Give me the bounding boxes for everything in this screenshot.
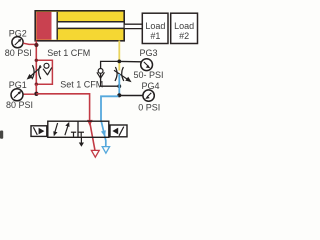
DCV left envelope arrow 2 (up) bbox=[65, 122, 70, 135]
svg-text:80 PSI: 80 PSI bbox=[6, 100, 33, 110]
node FCV2 bottom junction bbox=[117, 84, 121, 88]
FCV2 check valve seat bbox=[97, 72, 105, 78]
label Set 1 CFM (FCV1) bbox=[47, 48, 90, 58]
wire PG3 tap bbox=[119, 60, 141, 62]
svg-text:#2: #2 bbox=[179, 31, 189, 41]
piston rod inside barrel bbox=[58, 22, 124, 29]
wire FCV2 out (blue) bbox=[118, 74, 120, 95]
piston white gap bbox=[52, 12, 58, 40]
svg-text:#1: #1 bbox=[150, 31, 160, 41]
cylinder piston (red) bbox=[36, 12, 51, 40]
red flow arrow into valve bbox=[87, 120, 93, 126]
wire blue branch to valve bbox=[101, 96, 118, 121]
red flow path inside valve bbox=[90, 124, 95, 151]
flow control valve FCV2 bypass loop bbox=[101, 61, 120, 86]
edge smudge bottom-left bbox=[0, 131, 3, 139]
label 0 PSI bbox=[138, 103, 160, 113]
svg-text:Load: Load bbox=[174, 21, 194, 31]
wire FCV1 to main junction bbox=[35, 84, 37, 94]
gauge PG3 bbox=[141, 59, 153, 71]
load block #2 bbox=[171, 13, 198, 43]
label PG4 bbox=[142, 81, 160, 91]
svg-text:Load: Load bbox=[145, 21, 165, 31]
solenoid pilot right bbox=[110, 125, 127, 137]
blue flow path inside valve bbox=[101, 121, 106, 146]
FCV1 check valve seat bbox=[43, 68, 52, 76]
flow control valve FCV1 bypass loop bbox=[35, 59, 53, 86]
gauge PG2 bbox=[12, 37, 23, 48]
red exhaust triangle bbox=[91, 150, 99, 157]
cylinder C1 barrel bbox=[35, 11, 124, 41]
label PG3 bbox=[140, 48, 158, 58]
FCV2 adjust arrow bbox=[114, 70, 132, 82]
node PG1 junction bbox=[34, 92, 38, 96]
load block #1 bbox=[142, 13, 168, 43]
svg-text:0 PSI: 0 PSI bbox=[138, 103, 160, 113]
svg-text:Set 1 CFM: Set 1 CFM bbox=[60, 79, 103, 89]
gauge PG4 bbox=[143, 90, 154, 101]
FCV1 restrictor arcs bbox=[32, 65, 41, 79]
solenoid pilot left bbox=[31, 126, 47, 137]
svg-text:50- PSI: 50- PSI bbox=[134, 70, 164, 80]
label 80 PSI (PG1) bbox=[6, 100, 33, 110]
DCV left envelope blocked port T bbox=[71, 132, 76, 137]
node FCV2 top junction bbox=[117, 60, 121, 64]
wire PG4 tap bbox=[119, 95, 143, 97]
valve DCV body bbox=[48, 121, 109, 137]
wire cap-end port (red) bbox=[35, 41, 37, 61]
svg-text:80 PSI: 80 PSI bbox=[5, 48, 32, 58]
node PG2 junction bbox=[34, 43, 38, 47]
wire PG2 tap bbox=[23, 43, 36, 44]
blue exhaust triangle bbox=[102, 147, 109, 154]
label 80 PSI (PG2) bbox=[5, 48, 32, 58]
wire PG1 tap bbox=[23, 93, 34, 95]
FCV2 check valve ball bbox=[98, 69, 103, 74]
piston rod outside barrel to load bbox=[125, 24, 143, 28]
svg-text:Set 1 CFM: Set 1 CFM bbox=[47, 48, 90, 58]
FCV1 adjust arrow bbox=[27, 67, 42, 80]
DCV exhaust arrow (black) bbox=[79, 137, 84, 147]
wire main supply run (red) bbox=[36, 94, 89, 121]
wire rod-end port (yellow) bbox=[118, 41, 120, 71]
FCV1 check valve ball bbox=[44, 63, 49, 68]
FCV2 restrictor arcs bbox=[115, 67, 124, 81]
DCV right envelope blocked port T bbox=[78, 132, 84, 137]
svg-text:PG3: PG3 bbox=[140, 48, 158, 58]
label PG2 bbox=[9, 28, 27, 38]
label Set 1 CFM (FCV2) bbox=[60, 79, 103, 89]
gauge PG1 bbox=[11, 89, 23, 101]
node PG4 junction bbox=[117, 93, 121, 97]
DCV left envelope arrow 1 (down) bbox=[53, 123, 57, 136]
label PG1 bbox=[9, 80, 27, 90]
label 50- PSI bbox=[134, 70, 164, 80]
